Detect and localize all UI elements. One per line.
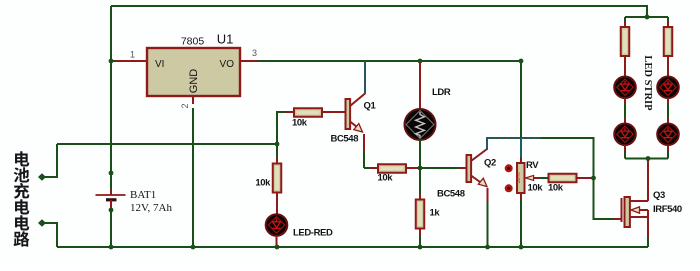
mosfet Q3 body arrow bbox=[637, 209, 648, 211]
svg-text:BAT1: BAT1 bbox=[130, 189, 156, 201]
wire Q1 collector to VO rail bbox=[364, 61, 366, 94]
wire terminal T2 stub to ground bus bbox=[44, 223, 57, 247]
wire mid horizontal (battery+ net) bbox=[57, 143, 277, 145]
resistor 1k bbox=[416, 200, 425, 229]
wire down to LED-RED resistor bbox=[276, 144, 278, 157]
svg-text:BC548: BC548 bbox=[331, 134, 359, 145]
svg-text:Q3: Q3 bbox=[653, 190, 665, 201]
Q3 gate lead stub bbox=[613, 218, 622, 220]
svg-text:IRF540: IRF540 bbox=[653, 204, 682, 215]
wire top rail from left bus to LED strip bbox=[111, 6, 647, 17]
LED D-red LED-RED bbox=[266, 214, 288, 236]
node pin1 tap bbox=[109, 59, 114, 64]
transistor Q1 collector stroke bbox=[350, 94, 365, 107]
node 1k to bus bbox=[418, 245, 423, 250]
resistor 10k (Q1 base) bbox=[294, 108, 322, 117]
LED strip left D1 bbox=[614, 77, 636, 99]
transistor Q2 base bar bbox=[467, 155, 472, 182]
wire LED1 to LED2 (right) bbox=[667, 98, 669, 104]
svg-text:1k: 1k bbox=[430, 208, 441, 219]
svg-text:10k: 10k bbox=[292, 118, 308, 129]
resistor 10k (LED-RED) stub bottom / wire to LED bbox=[276, 192, 278, 215]
svg-text:LED-RED: LED-RED bbox=[293, 228, 333, 239]
node Q2 emitter to bus bbox=[485, 245, 490, 250]
transistor Q1 base bar bbox=[346, 99, 351, 129]
svg-text:12V, 7Ah: 12V, 7Ah bbox=[130, 202, 172, 214]
transistor Q2 collector stroke bbox=[471, 149, 487, 161]
wire Q1 emitter to 10k bbox=[364, 167, 370, 169]
transistor Q2 emitter stroke bbox=[471, 176, 484, 185]
mosfet Q3 drain stub bbox=[630, 200, 648, 202]
resistor 10k (LED-RED) bbox=[273, 164, 282, 193]
pin 1 wire VI bbox=[111, 60, 117, 62]
wire Q1 emitter down bbox=[363, 134, 365, 152]
wire RV top teal segment bbox=[520, 138, 522, 158]
node Q2 base / 1k / LDR junction bbox=[418, 166, 423, 171]
node battery top tap bbox=[109, 171, 114, 176]
terminal T2 (diamond) bbox=[38, 219, 46, 227]
svg-text:10k: 10k bbox=[528, 183, 544, 194]
node LED strip to Q3 drain bbox=[646, 156, 651, 161]
wire LED strip bottom join bbox=[625, 158, 668, 160]
wire resistor to LED1 (left) bbox=[624, 56, 626, 77]
node VO-LDR junction bbox=[418, 59, 423, 64]
svg-text:LED STRIP: LED STRIP bbox=[642, 55, 653, 111]
resistor 10k (Q1 base) stub right bbox=[322, 111, 345, 113]
terminal dot RV pin1 bbox=[505, 164, 513, 172]
svg-text:LDR: LDR bbox=[432, 87, 451, 98]
svg-text:10k: 10k bbox=[548, 183, 564, 194]
node battery negative tap bbox=[109, 208, 114, 213]
wire Q2 emitter to ground bus bbox=[487, 188, 489, 202]
wire ground bus bottom bbox=[57, 246, 648, 248]
svg-text:U1: U1 bbox=[217, 32, 234, 47]
wire LED strip left column top stub bbox=[624, 17, 626, 22]
battery BAT1 negative plate bbox=[106, 198, 117, 201]
wire node down to 1k bbox=[419, 168, 421, 194]
wire battery negative to ground bus bbox=[110, 212, 112, 247]
svg-text:GND: GND bbox=[188, 69, 200, 94]
svg-text:1: 1 bbox=[130, 50, 135, 60]
wire LED-RED cathode to ground bus bbox=[276, 236, 278, 247]
wire up to Q1 base resistor bbox=[277, 112, 286, 144]
resistor 10k (LED-RED) stub top bbox=[276, 157, 278, 163]
node battery+ / R-divider junction bbox=[275, 142, 280, 147]
potentiometer RV bottom pin stub bbox=[520, 192, 522, 200]
transistor Q1 emitter stroke bbox=[350, 122, 362, 131]
LED strip left D2 bbox=[614, 124, 636, 146]
wire left vertical bus (battery positive riser) bbox=[110, 6, 112, 189]
LED strip right D2 bbox=[657, 124, 679, 146]
resistor LED strip right bbox=[664, 27, 673, 56]
LED strip right D1 bbox=[657, 77, 679, 99]
pin 3 wire VO bbox=[240, 60, 258, 62]
mosfet Q3 gate bar bbox=[621, 198, 623, 222]
svg-text:VO: VO bbox=[220, 59, 235, 70]
wire VO corner down to RV bbox=[520, 61, 522, 138]
node RV wiper / Q3 gate junction bbox=[591, 176, 596, 181]
wire LED2 down (right) bbox=[667, 145, 669, 151]
mosfet Q3 source stub bbox=[630, 216, 648, 218]
resistor stub to node bbox=[577, 177, 594, 179]
regulator U1 7805 body bbox=[147, 48, 240, 96]
node LED-RED to bus bbox=[275, 245, 280, 250]
svg-text:RV: RV bbox=[526, 160, 539, 171]
node battery to bus junction bbox=[109, 245, 114, 250]
svg-text:7805: 7805 bbox=[181, 36, 205, 48]
node LED strip top junction bbox=[645, 15, 650, 20]
resistor 10k (Q1 base) stub left bbox=[286, 111, 294, 113]
resistor LED strip left bbox=[621, 27, 630, 56]
wire LED strip top split bbox=[625, 16, 668, 18]
wire wiper to 10k resistor bbox=[540, 177, 548, 179]
svg-text:50%: 50% bbox=[516, 172, 522, 183]
wire Q3 source to ground bus bbox=[647, 217, 649, 238]
wire LED1 to LED2 (left) bbox=[624, 98, 626, 104]
wire terminal T1 stub bbox=[44, 144, 57, 177]
node VO-RV corner junction bbox=[519, 59, 524, 64]
battery BAT1 positive plate bbox=[96, 194, 126, 196]
transistor Q1 emitter arrowhead bbox=[354, 124, 363, 132]
resistor 10k (Q1 emitter to Q2 base) bbox=[378, 164, 406, 173]
wire node down to Q3 gate bbox=[594, 178, 614, 219]
wire Q3 drain up to LED strip bbox=[647, 159, 649, 201]
terminal dot RV pin3 bbox=[505, 184, 513, 192]
potentiometer RV body bbox=[517, 163, 525, 193]
potentiometer RV wiper arrow bbox=[525, 175, 533, 180]
svg-text:10k: 10k bbox=[378, 173, 394, 184]
wire LDR bottom to node bbox=[419, 140, 421, 168]
resistor stub right to node bbox=[406, 167, 420, 169]
wire Q2 collector vertical bbox=[486, 137, 488, 150]
node RV to bus bbox=[519, 245, 524, 250]
transistor Q2 emitter arrowhead bbox=[478, 178, 487, 186]
svg-text:3: 3 bbox=[252, 48, 257, 58]
resistor 10k (wiper) bbox=[549, 174, 577, 183]
svg-text:Q1: Q1 bbox=[364, 101, 377, 112]
potentiometer RV top pin stub bbox=[520, 157, 522, 164]
caption 电池充电电路 (vertical) bbox=[15, 151, 29, 166]
node GND to ground bus bbox=[191, 245, 196, 250]
wire node to Q2 base bbox=[420, 167, 459, 169]
pin 2 wire GND bbox=[192, 96, 194, 104]
svg-text:2: 2 bbox=[180, 103, 190, 108]
svg-text:BC548: BC548 bbox=[437, 189, 465, 200]
svg-text:Q2: Q2 bbox=[484, 158, 496, 169]
wire LED2 down (left) bbox=[624, 145, 626, 151]
wire Q2 collector to RV wiper node bbox=[541, 138, 594, 178]
wire Q2 collector teal segment bbox=[487, 137, 541, 139]
wire LED strip right column top stub bbox=[667, 17, 669, 22]
battery BAT1 pin stubs bbox=[110, 189, 112, 195]
svg-text:10k: 10k bbox=[255, 178, 271, 189]
wire LDR top from VO rail bbox=[419, 61, 421, 109]
svg-text:VI: VI bbox=[155, 59, 164, 70]
LDR photoresistor bbox=[405, 109, 436, 140]
wire RV bottom to ground bus bbox=[520, 199, 522, 247]
mosfet Q3 channel bar bbox=[625, 197, 630, 227]
resistor 1k stub bottom bbox=[419, 228, 421, 236]
wire resistor to LED1 (right) bbox=[667, 56, 669, 77]
terminal T1 (diamond) bbox=[38, 173, 46, 181]
